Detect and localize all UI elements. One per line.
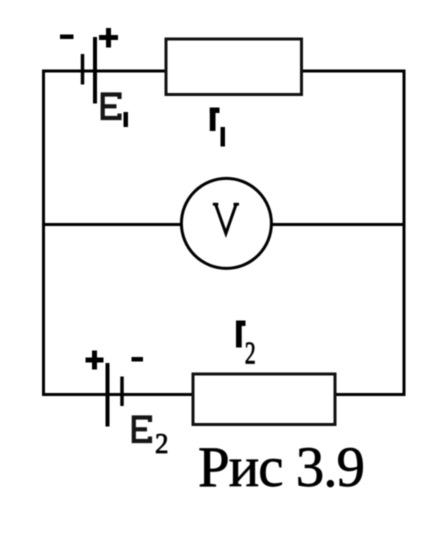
svg-text:2: 2 (245, 335, 256, 371)
wire top-left segment (42, 70, 166, 73)
battery E1 long plate (positive) (93, 37, 97, 104)
battery E2 label epsilon-2 (134, 418, 169, 461)
battery E1 short plate (negative) (81, 54, 85, 85)
resistor R2 (193, 374, 335, 425)
wire right vertical (403, 70, 406, 397)
battery E2 short plate (negative) (120, 377, 124, 407)
voltmeter U1 letter V (213, 203, 239, 234)
battery E1 minus sign (60, 35, 74, 40)
resistor R1 (166, 39, 302, 95)
resistor R1 label r1 (210, 108, 225, 147)
wire top-right segment (301, 70, 406, 73)
wire middle-right segment (270, 223, 406, 226)
voltmeter U1 body (181, 178, 271, 268)
wire bottom-left segment (42, 393, 194, 396)
wire middle-left segment (42, 223, 184, 226)
wire left vertical (42, 70, 45, 397)
wire bottom-right segment (334, 393, 406, 396)
svg-text:2: 2 (155, 429, 169, 460)
battery E1 plus sign (99, 28, 118, 48)
battery E2 minus sign (132, 357, 144, 362)
battery E2 long plate (positive) (106, 363, 110, 427)
resistor R2 label r2 (236, 321, 256, 371)
battery E2 plus sign (86, 351, 104, 370)
svg-text:Рис 3.9: Рис 3.9 (198, 436, 364, 499)
battery E1 label epsilon-1 (103, 95, 128, 128)
